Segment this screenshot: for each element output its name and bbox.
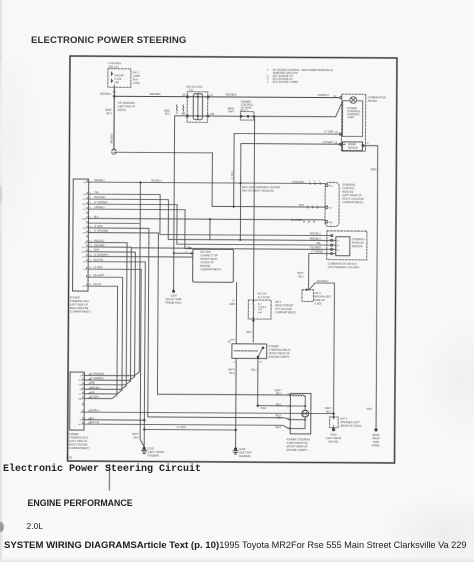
svg-text:WHT: WHT <box>275 425 281 429</box>
svg-text:RED/BLU: RED/BLU <box>310 236 321 240</box>
svg-text:LT GRN: LT GRN <box>177 425 186 429</box>
svg-text:DASH): DASH) <box>118 108 126 112</box>
svg-text:RH 1: RH 1 <box>133 70 139 74</box>
svg-text:WHT/BLU: WHT/BLU <box>317 279 329 283</box>
svg-text:ALT: ALT <box>258 303 262 306</box>
svg-text:REV OF RIGHT TENSION): REV OF RIGHT TENSION) <box>242 188 274 192</box>
svg-text:SIDE: SIDE <box>373 440 379 444</box>
svg-text:(ON STEERING COLUMN): (ON STEERING COLUMN) <box>328 265 360 269</box>
svg-text:INST OF DASH: INST OF DASH <box>186 86 202 89</box>
svg-text:GD: GD <box>79 420 83 422</box>
svg-text:WHT: WHT <box>230 339 236 341</box>
svg-text:W/T OF: W/T OF <box>258 292 267 296</box>
svg-text:ENGINE COMPT): ENGINE COMPT) <box>269 355 290 359</box>
svg-text:PNK: PNK <box>366 407 372 411</box>
svg-text:VIO/WHT: VIO/WHT <box>322 140 334 144</box>
svg-text:COMPARTMENT): COMPARTMENT) <box>70 310 91 314</box>
svg-text:SLD: SLD <box>83 194 88 196</box>
svg-text:LT GRN/RED: LT GRN/RED <box>90 373 105 376</box>
svg-text:AM-1: AM-1 <box>275 300 282 304</box>
svg-text:LT GRN/BLK: LT GRN/BLK <box>90 377 104 380</box>
svg-text:TEL/RED: TEL/RED <box>310 245 321 249</box>
svg-text:PNK/BLU: PNK/BLU <box>318 93 329 97</box>
svg-text:MTR: MTR <box>82 252 87 254</box>
svg-text:10A: 10A <box>114 80 119 84</box>
svg-text:LT GRN/WHT: LT GRN/WHT <box>94 253 109 256</box>
svg-text:B4: B4 <box>329 207 332 209</box>
svg-text:YEL: YEL <box>94 191 99 194</box>
svg-text:RED/BLK: RED/BLK <box>150 92 161 96</box>
svg-text:(RIGHT NEAR: (RIGHT NEAR <box>200 257 217 261</box>
svg-text:S3: S3 <box>337 245 340 247</box>
svg-text:ALT FUSE: ALT FUSE <box>258 295 270 299</box>
svg-text:RLA: RLA <box>133 77 138 81</box>
svg-text:(LEFT FRT: (LEFT FRT <box>239 451 252 455</box>
svg-text:S4: S4 <box>337 249 340 251</box>
svg-text:WHT: WHT <box>228 110 234 114</box>
svg-text:POWER: POWER <box>70 296 80 300</box>
svg-text:HTR MAIN: HTR MAIN <box>108 61 121 65</box>
svg-text:SON: SON <box>78 380 83 382</box>
svg-text:SM: SM <box>80 389 83 391</box>
svg-text:D/T-LINK: D/T-LINK <box>200 250 211 254</box>
svg-text:BLU: BLU <box>165 112 170 116</box>
svg-text:G203: G203 <box>239 447 246 451</box>
svg-text:REAR: REAR <box>372 433 379 437</box>
svg-text:H519: H519 <box>67 456 73 459</box>
svg-text:COMBINATION: COMBINATION <box>368 95 386 99</box>
svg-text:WHT: WHT <box>246 330 252 334</box>
svg-text:STEERING ECU: STEERING ECU <box>70 299 90 303</box>
svg-text:A21: A21 <box>189 89 194 92</box>
svg-text:BLK/YEL: BLK/YEL <box>94 259 104 262</box>
svg-text:S2: S2 <box>337 240 340 242</box>
svg-text:RED/BLU: RED/BLU <box>94 179 105 182</box>
svg-text:S204: S204 <box>170 294 177 298</box>
svg-text:LINK: LINK <box>258 309 263 311</box>
svg-text:STEERING RELAY: STEERING RELAY <box>269 348 292 352</box>
svg-text:SENSOR: SENSOR <box>348 147 358 150</box>
svg-text:IGN: IGN <box>83 182 87 184</box>
svg-text:STR: STR <box>83 199 88 201</box>
svg-text:40A (LH): 40A (LH) <box>108 65 118 69</box>
svg-text:CRN: CRN <box>78 385 83 387</box>
svg-text:1C: 1C <box>233 362 236 364</box>
svg-text:1: 1 <box>267 68 269 72</box>
svg-text:BLU: BLU <box>94 215 99 218</box>
svg-text:POWER: POWER <box>69 432 79 436</box>
svg-text:4: 4 <box>267 80 269 84</box>
svg-text:(LHD): (LHD) <box>133 81 140 85</box>
svg-text:RIGHT ENGINE: RIGHT ENGINE <box>69 443 88 447</box>
svg-text:LT GRN: LT GRN <box>324 130 333 134</box>
svg-text:EXC ENGINE TURBO: EXC ENGINE TURBO <box>273 80 299 84</box>
svg-text:D415: D415 <box>330 433 337 437</box>
svg-text:LAMP: LAMP <box>133 74 140 78</box>
svg-text:COMPARTMENT): COMPARTMENT) <box>200 267 221 271</box>
svg-text:BRN: BRN <box>371 167 377 171</box>
svg-text:LT GRN: LT GRN <box>90 396 99 399</box>
svg-text:PNK: PNK <box>261 406 267 410</box>
svg-text:SIDE UP: SIDE UP <box>315 298 326 302</box>
svg-text:SIO: SIO <box>83 228 87 230</box>
svg-text:GRN: GRN <box>229 302 235 306</box>
svg-text:BLU: BLU <box>326 409 331 413</box>
svg-text:RED/BLK: RED/BLK <box>112 133 114 143</box>
svg-text:CTR: CTR <box>82 256 87 258</box>
svg-text:CMM: CMM <box>78 398 83 400</box>
svg-text:WHT/: WHT/ <box>297 271 304 275</box>
svg-text:RED/: RED/ <box>105 108 112 112</box>
svg-text:RED/BLK: RED/BLK <box>226 92 237 96</box>
svg-text:WHT/: WHT/ <box>325 406 332 410</box>
svg-text:BLU/WHT: BLU/WHT <box>94 274 105 277</box>
svg-text:B1: B1 <box>259 362 262 364</box>
svg-text:A8: A8 <box>182 93 186 97</box>
svg-text:(RIGHT REAR OF: (RIGHT REAR OF <box>287 444 309 448</box>
svg-text:STEERING ECU: STEERING ECU <box>69 436 89 440</box>
svg-text:ENGINE COMPT): ENGINE COMPT) <box>287 448 308 452</box>
svg-text:LT GRN/RED: LT GRN/RED <box>94 230 109 233</box>
svg-text:BROWN LEFT: BROWN LEFT <box>315 294 332 298</box>
svg-text:ENGINE: ENGINE <box>200 264 210 268</box>
svg-text:WHT/: WHT/ <box>132 432 139 436</box>
svg-text:LUE: LUE <box>90 391 95 394</box>
svg-text:SPEARED LEFT: SPEARED LEFT <box>340 420 360 424</box>
svg-text:YEL/GRN: YEL/GRN <box>94 244 105 247</box>
svg-text:CONNECT OR: CONNECT OR <box>200 253 218 257</box>
svg-text:BLU: BLU <box>299 274 304 278</box>
svg-text:VIO/BLU: VIO/BLU <box>90 409 100 412</box>
svg-text:LT GRN: LT GRN <box>94 266 103 269</box>
svg-text:CONTROL: CONTROL <box>342 186 355 190</box>
svg-text:WHT/: WHT/ <box>228 367 235 371</box>
svg-text:(RIGHT FRONT: (RIGHT FRONT <box>275 303 294 307</box>
svg-text:FRAME RAIL): FRAME RAIL) <box>165 301 182 305</box>
svg-text:(RIGHT SIDE: (RIGHT SIDE <box>166 297 182 301</box>
svg-text:(LEFT END OF: (LEFT END OF <box>118 104 136 108</box>
svg-text:(LHD): (LHD) <box>314 301 321 305</box>
svg-text:YEL: YEL <box>276 416 281 420</box>
svg-text:BRACE): BRACE) <box>329 440 339 444</box>
svg-text:POWER: POWER <box>269 344 279 348</box>
svg-text:BLK: BLK <box>299 203 304 207</box>
svg-text:(LEFT REAR: (LEFT REAR <box>326 436 341 440</box>
svg-text:W/T 3: W/T 3 <box>340 417 347 421</box>
svg-text:UH-3: UH-3 <box>315 291 322 295</box>
svg-text:B10: B10 <box>329 186 334 188</box>
svg-text:PANEL: PANEL <box>372 443 381 447</box>
svg-text:BLU: BLU <box>230 371 235 375</box>
svg-text:LT GRN/BLK: LT GRN/BLK <box>94 201 108 204</box>
svg-text:FUSE: FUSE <box>114 77 121 81</box>
svg-text:OF LUGGAGE: OF LUGGAGE <box>275 307 292 311</box>
svg-text:(LEFT SIDE OF: (LEFT SIDE OF <box>69 439 88 443</box>
svg-text:LT GRN: LT GRN <box>94 225 103 228</box>
svg-text:RED/BLU: RED/BLU <box>90 386 101 389</box>
svg-text:(RIGHT REAR OF: (RIGHT REAR OF <box>269 351 291 355</box>
svg-text:CTT: CTT <box>79 394 84 396</box>
svg-text:COMPARTMENT): COMPARTMENT) <box>342 200 363 204</box>
svg-text:PNK/GRN: PNK/GRN <box>94 196 105 199</box>
svg-text:BLK/W: BLK/W <box>94 283 102 286</box>
svg-text:A7: A7 <box>176 111 179 114</box>
svg-text:RIGHT LUGGAGE: RIGHT LUGGAGE <box>342 197 364 201</box>
svg-text:(LEFT REAR OF: (LEFT REAR OF <box>342 193 362 197</box>
svg-text:FENDER): FENDER) <box>239 454 251 458</box>
svg-text:(LEFT SIDE OF: (LEFT SIDE OF <box>70 303 89 307</box>
svg-text:A10: A10 <box>329 221 334 224</box>
svg-text:S/P WARNING: S/P WARNING <box>118 101 135 105</box>
svg-text:(REAR OF DASH): (REAR OF DASH) <box>340 424 361 428</box>
svg-text:BLK: BLK <box>90 417 95 420</box>
svg-text:FENDER): FENDER) <box>148 453 160 457</box>
svg-text:POWER STEERING: POWER STEERING <box>287 437 311 441</box>
svg-text:12B: 12B <box>210 112 215 116</box>
svg-text:PROP: PROP <box>372 436 380 440</box>
svg-text:GRN/BLU: GRN/BLU <box>94 206 105 209</box>
svg-text:VCC: VCC <box>82 247 87 249</box>
svg-text:BLK: BLK <box>134 435 139 439</box>
svg-text:BLU/RED: BLU/RED <box>291 218 302 222</box>
svg-text:YEL: YEL <box>316 241 321 245</box>
svg-text:METER: METER <box>368 99 377 103</box>
svg-text:COMPARTMENT): COMPARTMENT) <box>275 310 296 314</box>
svg-text:STEERING: STEERING <box>342 183 355 187</box>
svg-text:RED/BLU: RED/BLU <box>310 232 321 236</box>
svg-text:SENSOR: SENSOR <box>352 245 363 248</box>
svg-text:G202: G202 <box>148 446 155 450</box>
svg-text:(LEFT FRONT: (LEFT FRONT <box>148 450 165 454</box>
svg-text:13: 13 <box>210 93 213 97</box>
svg-text:BLU: BLU <box>107 111 112 115</box>
svg-text:PNK/GRN: PNK/GRN <box>292 180 304 184</box>
svg-text:4: 4 <box>367 141 369 145</box>
svg-text:LT GRN: LT GRN <box>232 171 234 179</box>
svg-text:80A: 80A <box>258 311 262 314</box>
svg-text:PUMP W/MOTOR: PUMP W/MOTOR <box>287 441 308 445</box>
svg-text:MODULE: MODULE <box>342 190 353 194</box>
svg-text:CLT: CLT <box>83 209 88 211</box>
svg-text:RED/YEL: RED/YEL <box>94 239 105 242</box>
svg-text:RLY 1: RLY 1 <box>241 108 249 112</box>
svg-text:RED/BLK: RED/BLK <box>100 92 111 96</box>
svg-text:BLU: BLU <box>276 391 281 395</box>
svg-text:RIGHT ENGINE: RIGHT ENGINE <box>70 306 89 310</box>
svg-text:BLK/YEL: BLK/YEL <box>90 421 100 424</box>
svg-text:GAUGE: GAUGE <box>114 73 124 77</box>
svg-text:WHT: WHT <box>94 249 100 252</box>
svg-text:LAMP: LAMP <box>347 115 354 119</box>
svg-text:COMPARTMENT): COMPARTMENT) <box>69 446 90 450</box>
svg-text:FUSIBLE: FUSIBLE <box>258 306 267 308</box>
svg-text:LT GRN/B: LT GRN/B <box>311 250 323 254</box>
svg-text:BLU: BLU <box>251 368 256 372</box>
svg-text:BLU: BLU <box>276 402 281 406</box>
svg-text:COVER OF: COVER OF <box>200 260 214 264</box>
svg-text:RED/BLU: RED/BLU <box>151 179 162 182</box>
svg-text:LT: LT <box>232 298 235 302</box>
svg-text:RED: RED <box>90 382 95 385</box>
